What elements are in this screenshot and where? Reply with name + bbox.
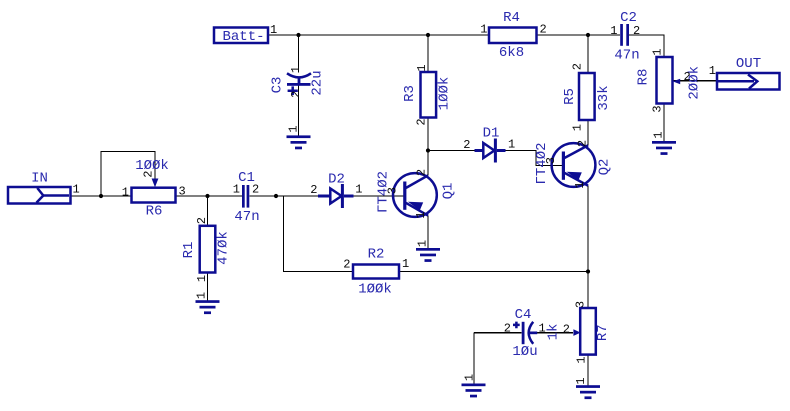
potentiometer R6 body bbox=[132, 188, 176, 203]
svg-text:1: 1 bbox=[355, 183, 362, 197]
svg-text:47n: 47n bbox=[234, 209, 259, 225]
wire R2 to Q2 emitter node bbox=[399, 271, 588, 273]
transistor Q2 emitter arrow (PNP) bbox=[567, 172, 582, 181]
svg-text:2: 2 bbox=[463, 138, 470, 152]
ground below R8 bar 2 bbox=[656, 147, 672, 150]
connector Batt- bbox=[214, 23, 277, 45]
svg-text:2: 2 bbox=[195, 217, 209, 224]
junction node Batt/C3 bbox=[296, 33, 300, 37]
transistor Q2 emitter stroke bbox=[564, 173, 588, 186]
capacitor C3 curved plate bbox=[287, 73, 311, 77]
svg-text:1: 1 bbox=[195, 275, 209, 282]
resistor R1 body bbox=[200, 226, 216, 273]
junction node C1/D2/R2 bbox=[274, 194, 278, 198]
potentiometer R8 bbox=[636, 48, 703, 112]
svg-text:3: 3 bbox=[179, 185, 186, 199]
connector IN body bbox=[8, 187, 71, 204]
junction node R4/C2/R5 bbox=[586, 33, 590, 37]
svg-text:47n: 47n bbox=[614, 48, 639, 64]
transistor Q2 base bar bbox=[562, 152, 565, 180]
svg-text:2: 2 bbox=[415, 169, 429, 176]
wire C3 top bbox=[298, 35, 300, 73]
ground below R1 bar 2 bbox=[200, 306, 216, 309]
svg-text:1: 1 bbox=[480, 23, 487, 37]
capacitor C1 left plate bbox=[242, 185, 245, 208]
ground below R1 bar 1 bbox=[196, 300, 220, 303]
svg-text:1Øu: 1Øu bbox=[512, 344, 537, 360]
transistor Q2 body circle bbox=[552, 143, 596, 187]
transistor Q1 emitter stroke bbox=[406, 203, 428, 216]
diode D1 triangle bbox=[483, 143, 494, 158]
svg-text:1: 1 bbox=[508, 138, 515, 152]
svg-text:1: 1 bbox=[73, 183, 80, 197]
svg-text:1: 1 bbox=[414, 211, 428, 218]
svg-text:D1: D1 bbox=[483, 126, 500, 142]
wire D2 to Q1 base bbox=[354, 195, 405, 197]
svg-text:1: 1 bbox=[287, 125, 301, 132]
capacitor C2 right plate bbox=[626, 24, 629, 46]
svg-text:2: 2 bbox=[289, 91, 303, 98]
capacitor C3 polarity plus bbox=[288, 86, 298, 95]
svg-text:R2: R2 bbox=[368, 247, 385, 263]
wire R3 to D1 node bbox=[427, 118, 429, 151]
connector Batt- body bbox=[214, 28, 268, 44]
svg-text:R6: R6 bbox=[146, 204, 163, 220]
svg-text:3: 3 bbox=[651, 105, 665, 112]
svg-text:2: 2 bbox=[633, 24, 640, 38]
diode D2 triangle bbox=[330, 189, 341, 204]
ground below C4 bar 3 bbox=[470, 395, 477, 398]
resistor R1 bbox=[181, 217, 232, 282]
ground below Q1 bar 3 bbox=[425, 259, 432, 262]
svg-text:1k: 1k bbox=[546, 324, 562, 341]
wire C4 left to ground corner bbox=[474, 332, 522, 334]
potentiometer R6 wiper arrow bbox=[152, 179, 159, 188]
svg-text:1: 1 bbox=[122, 186, 129, 200]
junction node Batt/R3 bbox=[426, 33, 430, 37]
connector IN chevron arrow bbox=[37, 188, 44, 203]
capacitor C1 bbox=[233, 170, 260, 225]
capacitor C1 right plate bbox=[247, 185, 250, 208]
capacitor C4 straight plate bbox=[522, 322, 525, 344]
capacitor C4 curved plate bbox=[529, 322, 534, 344]
svg-text:C3: C3 bbox=[270, 77, 286, 94]
svg-text:2: 2 bbox=[504, 322, 511, 336]
svg-text:1: 1 bbox=[415, 240, 429, 247]
ground below C4 bar 2 bbox=[466, 389, 482, 392]
svg-text:2: 2 bbox=[252, 183, 259, 197]
svg-text:1ØØk: 1ØØk bbox=[437, 77, 453, 111]
potentiometer R7 body bbox=[580, 308, 596, 355]
capacitor C3 bbox=[270, 66, 326, 98]
wire R8 wiper to OUT bbox=[673, 80, 718, 82]
capacitor C3 straight plate bbox=[287, 83, 311, 86]
wire C4 ground drop bbox=[473, 333, 475, 384]
ground below C3 bbox=[287, 125, 311, 149]
svg-text:R7: R7 bbox=[595, 324, 611, 341]
svg-text:1: 1 bbox=[402, 257, 409, 271]
potentiometer R6 bbox=[122, 158, 186, 220]
ground below R7 bbox=[574, 377, 600, 399]
svg-text:R3: R3 bbox=[402, 85, 418, 102]
svg-text:R5: R5 bbox=[562, 88, 578, 105]
capacitor C2 left plate bbox=[620, 24, 623, 46]
wire C4 to R7 wiper bbox=[534, 332, 574, 334]
svg-text:1: 1 bbox=[539, 322, 546, 336]
resistor R5 body bbox=[579, 73, 595, 120]
svg-text:2: 2 bbox=[343, 258, 350, 272]
ground below C3 bar 3 bbox=[295, 147, 302, 150]
svg-text:1: 1 bbox=[289, 66, 303, 73]
diode D2 cathode lead bbox=[344, 195, 354, 198]
svg-text:22u: 22u bbox=[310, 70, 326, 95]
potentiometer R7 bbox=[546, 301, 612, 364]
potentiometer R7 wiper arrow bbox=[573, 329, 580, 336]
ground below Q1 bar 1 bbox=[416, 248, 440, 251]
junction node R6/C1/R1 bbox=[205, 194, 209, 198]
ground below R7 bar 2 bbox=[580, 391, 596, 394]
svg-text:R1: R1 bbox=[181, 242, 197, 259]
diode D2 bbox=[310, 172, 362, 209]
svg-text:3: 3 bbox=[574, 301, 588, 308]
connector OUT mid line bbox=[718, 80, 754, 83]
svg-text:1: 1 bbox=[463, 374, 477, 381]
resistor R4 body bbox=[489, 28, 537, 44]
svg-text:1: 1 bbox=[270, 23, 277, 37]
resistor R2 body bbox=[353, 265, 399, 279]
svg-text:1: 1 bbox=[709, 64, 716, 78]
wire junction C1 down to R2 bbox=[284, 196, 354, 272]
wire C2 to R8 corner bbox=[629, 35, 664, 57]
connector IN mid line bbox=[43, 194, 69, 197]
junction node IN/R6 bbox=[99, 194, 103, 198]
transistor Q2 collector stroke bbox=[564, 145, 588, 158]
potentiometer R8 wiper arrow bbox=[673, 79, 680, 85]
transistor Q1 collector stroke bbox=[406, 175, 428, 188]
diode D1 bbox=[463, 126, 515, 163]
capacitor C4 lead stub bbox=[529, 332, 537, 335]
transistor Q1 base bar bbox=[403, 182, 406, 210]
svg-text:1: 1 bbox=[573, 181, 587, 188]
svg-text:1: 1 bbox=[652, 131, 666, 138]
wire R8 to ground bbox=[663, 104, 665, 142]
wire R5 top bbox=[587, 35, 589, 73]
svg-text:1: 1 bbox=[575, 356, 589, 363]
svg-text:1: 1 bbox=[233, 183, 240, 197]
capacitor C2 bbox=[610, 10, 640, 64]
transistor Q1 emitter arrow (PNP) bbox=[408, 202, 423, 211]
wire R1 top bbox=[207, 196, 209, 226]
resistor R4 bbox=[480, 10, 546, 61]
wire D1 node left segment bbox=[428, 150, 475, 152]
wire R1 to ground bbox=[207, 273, 209, 302]
junction node R3/D1/Q1 bbox=[426, 148, 430, 152]
svg-text:1: 1 bbox=[571, 124, 585, 131]
wire Q2 emitter down bbox=[587, 186, 589, 308]
capacitor C4 polarity plus bbox=[513, 322, 520, 329]
ground below R8 bar 3 bbox=[661, 152, 668, 155]
ground below R8 bbox=[652, 131, 677, 155]
diode D1 anode lead bbox=[475, 149, 484, 152]
transistor Q1 body circle bbox=[393, 173, 437, 217]
svg-text:2: 2 bbox=[684, 70, 691, 84]
svg-text:2: 2 bbox=[540, 23, 547, 37]
resistor R5 bbox=[562, 63, 612, 131]
transistor Q2 bbox=[534, 140, 613, 189]
capacitor C3 lead stub bbox=[298, 77, 301, 84]
wire R4 to C2 bbox=[537, 34, 621, 36]
wire Q1 emitter to ground bbox=[427, 216, 429, 249]
connector OUT chevron arrow bbox=[748, 75, 757, 89]
wire C1 to D2 bbox=[249, 195, 318, 197]
svg-text:1: 1 bbox=[415, 64, 429, 71]
svg-text:Q1: Q1 bbox=[441, 183, 457, 200]
diode D1 cathode lead bbox=[497, 149, 506, 152]
svg-text:Q2: Q2 bbox=[597, 159, 613, 176]
ground below R1 bbox=[195, 292, 220, 314]
ground below C3 bar 2 bbox=[291, 141, 307, 144]
ground below R1 bar 3 bbox=[204, 311, 211, 314]
wire top rail Batt- to R4 bbox=[269, 34, 490, 36]
svg-text:IN: IN bbox=[31, 171, 48, 187]
wire R6 feedback loop to wiper bbox=[101, 152, 155, 197]
svg-text:47Øk: 47Øk bbox=[216, 231, 232, 265]
svg-text:1: 1 bbox=[574, 377, 588, 384]
svg-text:OUT: OUT bbox=[736, 56, 761, 72]
svg-text:C4: C4 bbox=[515, 307, 532, 323]
svg-text:3: 3 bbox=[544, 157, 558, 164]
wire R3 top bbox=[427, 35, 429, 72]
svg-text:R8: R8 bbox=[636, 69, 652, 86]
diode D2 anode lead bbox=[318, 195, 330, 198]
wire R7 to ground bbox=[587, 355, 589, 386]
svg-text:33k: 33k bbox=[596, 85, 612, 110]
diode D2 cathode bar bbox=[341, 184, 344, 208]
wire C3 to ground bbox=[298, 85, 300, 136]
resistor R3 bbox=[402, 64, 453, 125]
ground below Q1 bbox=[415, 240, 440, 262]
ground below C3 bar 1 bbox=[287, 135, 311, 138]
svg-text:1ØØk: 1ØØk bbox=[358, 282, 392, 298]
svg-text:D2: D2 bbox=[328, 172, 345, 188]
svg-text:1: 1 bbox=[610, 24, 617, 38]
svg-text:R4: R4 bbox=[503, 10, 520, 26]
svg-text:2: 2 bbox=[563, 323, 570, 337]
ground below C4 bar 1 bbox=[462, 384, 486, 387]
resistor R3 body bbox=[421, 72, 437, 118]
ground below R7 bar 1 bbox=[576, 385, 600, 388]
wire Q1 collector bbox=[427, 151, 429, 176]
capacitor C4 bbox=[504, 307, 546, 360]
wire R5 to Q2 collector bbox=[587, 120, 589, 145]
svg-text:3: 3 bbox=[386, 187, 400, 194]
ground below Q1 bar 2 bbox=[420, 254, 436, 257]
junction node Q2/R2/R7 bbox=[586, 269, 590, 273]
svg-text:2: 2 bbox=[576, 140, 590, 147]
diode D1 cathode bar bbox=[494, 139, 497, 163]
svg-text:6k8: 6k8 bbox=[499, 45, 524, 61]
svg-text:2: 2 bbox=[571, 63, 585, 70]
svg-text:Batt-: Batt- bbox=[222, 29, 264, 45]
transistor Q1 bbox=[376, 169, 457, 219]
wire R6 to C1 bbox=[176, 195, 243, 197]
ground below R7 bar 3 bbox=[585, 396, 592, 399]
svg-text:2: 2 bbox=[310, 183, 317, 197]
ground below R8 bar 1 bbox=[652, 141, 676, 144]
connector OUT body bbox=[717, 73, 780, 90]
connector OUT bbox=[709, 56, 780, 90]
svg-text:2: 2 bbox=[142, 171, 156, 178]
potentiometer R8 body bbox=[657, 57, 673, 104]
connector IN bbox=[8, 171, 80, 204]
svg-text:1: 1 bbox=[195, 292, 209, 299]
ground below C4 bbox=[462, 374, 486, 398]
wire D1 to Q2 base step bbox=[506, 151, 563, 166]
resistor R2 bbox=[343, 247, 409, 298]
svg-text:2: 2 bbox=[415, 118, 429, 125]
svg-text:1: 1 bbox=[651, 48, 665, 55]
wire main input rail IN to R6 bbox=[71, 195, 132, 197]
